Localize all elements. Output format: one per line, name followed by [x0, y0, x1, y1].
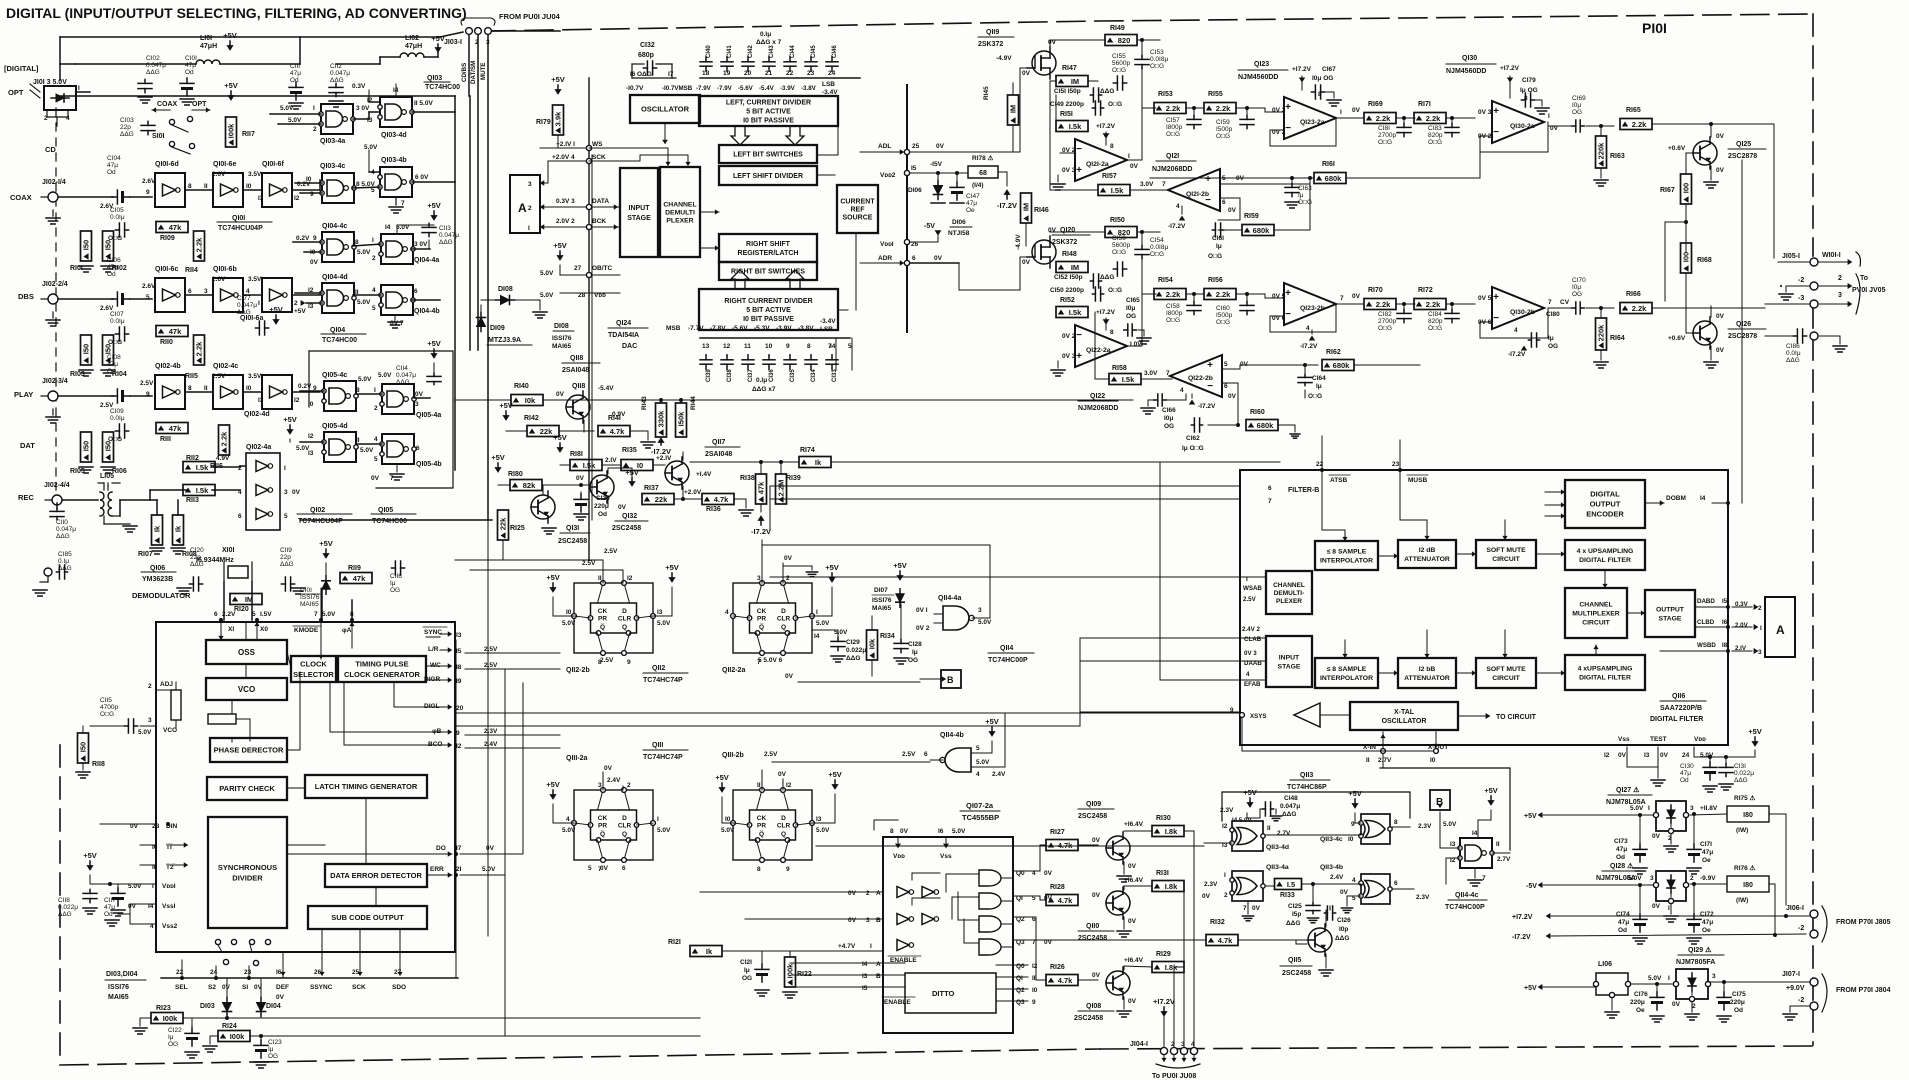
svg-text:QI23-2a: QI23-2a	[1300, 119, 1325, 126]
svg-text:8: 8	[1524, 95, 1528, 102]
svg-text:6: 6	[1268, 485, 1272, 492]
svg-text:QI0I-6f: QI0I-6f	[262, 161, 284, 168]
svg-text:-I7.2V: -I7.2V	[1198, 403, 1216, 410]
connector J101 optical	[44, 86, 76, 110]
svg-text:RI52: RI52	[1060, 297, 1075, 304]
svg-text:MULTIPLEXER: MULTIPLEXER	[1572, 610, 1620, 617]
svg-text:5: 5	[1222, 175, 1226, 182]
svg-text:2.3V: 2.3V	[1204, 881, 1218, 888]
svg-text:2SC2458: 2SC2458	[612, 525, 641, 532]
svg-text:To: To	[1860, 275, 1868, 282]
block lower SOFT MUTE CIRCUIT	[1476, 658, 1536, 688]
svg-text:0V: 0V	[784, 555, 793, 562]
svg-text:25: 25	[912, 143, 920, 150]
svg-text:I3: I3	[308, 303, 314, 310]
svg-text:I00k: I00k	[230, 1032, 245, 1041]
svg-text:QI0I: QI0I	[232, 215, 245, 222]
svg-text:O□G: O□G	[1378, 325, 1392, 332]
svg-text:0V: 0V	[1716, 347, 1725, 354]
IC Q106 outline	[156, 622, 455, 952]
svg-text:RI63: RI63	[1610, 153, 1625, 160]
svg-text:0V: 0V	[604, 765, 613, 772]
svg-text:DI07: DI07	[874, 587, 888, 594]
svg-text:STAGE: STAGE	[1659, 615, 1682, 622]
svg-text:RI27: RI27	[1050, 829, 1065, 836]
sheet border dashed right upper	[1812, 14, 1814, 256]
svg-text:CLOCK GENERATOR: CLOCK GENERATOR	[344, 670, 421, 679]
svg-text:RI3I: RI3I	[1156, 870, 1169, 877]
power -17.2V Q122-2b	[1189, 399, 1195, 404]
svg-text:Od: Od	[1618, 927, 1627, 934]
svg-text:I0k: I0k	[868, 638, 877, 649]
svg-text:0V: 0V	[576, 475, 585, 482]
svg-text:680k: 680k	[1257, 421, 1275, 430]
svg-text:-I7.2V: -I7.2V	[997, 201, 1017, 210]
svg-text:D: D	[781, 815, 786, 822]
svg-text:−: −	[1076, 144, 1082, 155]
svg-text:TC4555BP: TC4555BP	[962, 813, 999, 822]
+5V Q112-2b left	[552, 583, 554, 590]
svg-text:TO CIRCUIT: TO CIRCUIT	[1496, 714, 1537, 721]
svg-text:2SC2878: 2SC2878	[1728, 333, 1757, 340]
xor Q113-4a boxed	[1232, 871, 1263, 901]
svg-text:IM: IM	[1022, 203, 1031, 211]
svg-text:DI03: DI03	[200, 1003, 215, 1010]
svg-text:CI60: CI60	[1216, 305, 1230, 312]
svg-text:2SAI048: 2SAI048	[705, 451, 732, 458]
svg-text:DIGITAL FILTER: DIGITAL FILTER	[1579, 674, 1631, 681]
svg-text:QI0I-6e: QI0I-6e	[213, 161, 236, 168]
wire ADL to Q119 gate	[1019, 68, 1021, 152]
svg-text:TIMING PULSE: TIMING PULSE	[355, 659, 408, 668]
svg-text:5 5.0V 6: 5 5.0V 6	[758, 657, 783, 664]
svg-text:RI59: RI59	[1244, 213, 1259, 220]
svg-text:CI56: CI56	[1112, 235, 1126, 242]
svg-text:OG: OG	[1164, 423, 1174, 430]
block INPUT STAGE	[620, 168, 658, 257]
svg-text:QI2I: QI2I	[1166, 153, 1179, 160]
svg-text:I2: I2	[456, 743, 462, 750]
buffers B line	[897, 914, 909, 925]
svg-text:I00: I00	[1682, 252, 1691, 262]
svg-text:0.Iμ: 0.Iμ	[756, 377, 767, 384]
svg-text:II: II	[1366, 757, 1370, 764]
svg-text:5.0V: 5.0V	[360, 447, 374, 454]
svg-text:DI04: DI04	[266, 1003, 281, 1010]
DAC right edge	[906, 85, 908, 332]
svg-text:RI55: RI55	[1208, 91, 1223, 98]
svg-text:I3: I3	[862, 973, 868, 980]
power -17.2V R143	[660, 440, 662, 445]
svg-text:RI44: RI44	[690, 396, 697, 410]
svg-text:-5V: -5V	[1526, 883, 1537, 890]
svg-text:QI03-4c: QI03-4c	[320, 163, 345, 170]
svg-text:DO: DO	[436, 845, 446, 852]
svg-text:3.5V: 3.5V	[248, 276, 262, 283]
svg-text:0.2V: 0.2V	[297, 181, 311, 188]
svg-text:6: 6	[912, 255, 916, 262]
svg-text:CV: CV	[1560, 299, 1570, 306]
svg-text:-5.3V: -5.3V	[754, 325, 770, 332]
svg-text:II: II	[1267, 825, 1271, 832]
regulator Q129	[1676, 969, 1708, 999]
svg-text:-3.8V: -3.8V	[798, 325, 814, 332]
svg-text:I: I	[1760, 625, 1762, 632]
svg-text:Od: Od	[1616, 854, 1625, 861]
svg-text:4: 4	[725, 609, 729, 616]
svg-text:A: A	[876, 961, 881, 968]
wire +1.4V node	[683, 461, 690, 463]
svg-text:QII3: QII3	[1300, 772, 1313, 779]
svg-text:+I.4V: +I.4V	[696, 471, 712, 478]
svg-text:0V: 0V	[1652, 833, 1661, 840]
timing generator pin wires	[426, 636, 440, 638]
svg-text:I: I	[1128, 153, 1130, 160]
svg-text:RI42: RI42	[524, 415, 539, 422]
svg-text:QI24: QI24	[616, 320, 631, 327]
svg-text:2.4V 2: 2.4V 2	[1242, 626, 1260, 633]
svg-text:2SK372: 2SK372	[1052, 239, 1077, 246]
opamp Q121-2a	[1075, 139, 1127, 181]
svg-text:4: 4	[1191, 1041, 1195, 1048]
svg-text:+5V: +5V	[546, 780, 560, 789]
svg-text:I3: I3	[1450, 841, 1456, 848]
svg-text:X-IN: X-IN	[1363, 744, 1376, 751]
+5V filter	[1754, 737, 1756, 744]
demod internal wires	[245, 622, 247, 640]
transistor Q108	[1106, 971, 1130, 995]
svg-text:+5V: +5V	[431, 34, 445, 43]
resistor R116 2.2k	[219, 425, 230, 455]
svg-text:0.047μ: 0.047μ	[439, 232, 459, 239]
svg-text:QI08: QI08	[1086, 1003, 1101, 1010]
optical arrows into J101	[30, 84, 40, 92]
svg-text:8: 8	[890, 828, 894, 835]
sheet border dashed bottom left	[60, 1049, 1100, 1065]
svg-text:22k: 22k	[540, 427, 553, 436]
svg-text:18: 18	[702, 70, 710, 77]
svg-text:3: 3	[204, 288, 208, 295]
svg-text:RI30: RI30	[1156, 815, 1171, 822]
svg-text:Iμ: Iμ	[1216, 243, 1222, 250]
svg-text:OG: OG	[1572, 109, 1582, 116]
inverter Q101-6d	[155, 173, 185, 207]
svg-text:QI02-4d: QI02-4d	[244, 411, 270, 418]
svg-text:0V: 0V	[1202, 893, 1211, 900]
resistor R144 150k	[676, 403, 687, 437]
svg-text:0V: 0V	[1352, 293, 1361, 300]
resistor R168 100	[1681, 243, 1692, 273]
svg-text:680p: 680p	[638, 52, 654, 59]
wire gates row1	[353, 118, 369, 120]
block RIGHT CURRENT DIVIDER	[699, 289, 838, 330]
resistor R146 1M	[1021, 193, 1032, 223]
svg-text:Iμ: Iμ	[168, 1034, 174, 1041]
svg-text:2: 2	[1838, 275, 1842, 282]
svg-text:2: 2	[528, 205, 532, 212]
svg-text:RII2: RII2	[186, 455, 199, 462]
svg-text:ΔΔG: ΔΔG	[280, 561, 294, 568]
svg-text:D: D	[622, 815, 627, 822]
svg-text:LSB: LSB	[820, 326, 833, 333]
svg-text:I50: I50	[82, 441, 91, 451]
svg-text:CII4: CII4	[396, 365, 408, 372]
svg-text:RI46: RI46	[1034, 207, 1049, 214]
svg-text:To PU0I JU08: To PU0I JU08	[1152, 1073, 1196, 1080]
inverter Q101-6e	[213, 173, 243, 207]
svg-text:I00k: I00k	[163, 1014, 178, 1023]
svg-text:I3: I3	[456, 632, 462, 639]
svg-text:[DIGITAL]: [DIGITAL]	[4, 64, 39, 73]
svg-text:II: II	[356, 437, 360, 444]
svg-text:O□G: O□G	[1216, 319, 1230, 326]
svg-text:I: I	[816, 609, 818, 616]
fat arrows right divider	[731, 270, 749, 289]
svg-text:0V: 0V	[1092, 837, 1101, 844]
svg-text:OΔG: OΔG	[637, 71, 652, 78]
svg-text:RI76 ⚠: RI76 ⚠	[1734, 864, 1757, 872]
svg-text:PLEXER: PLEXER	[666, 217, 693, 224]
svg-text:WSAB: WSAB	[1243, 585, 1262, 592]
svg-text:680k: 680k	[1333, 361, 1351, 370]
svg-text:ΔΔG: ΔΔG	[56, 533, 70, 540]
nand Q104-4c	[322, 232, 354, 262]
svg-text:0.047μ: 0.047μ	[330, 70, 350, 77]
svg-text:0V: 0V	[848, 890, 857, 897]
flipflop Q112-2a cluster	[733, 583, 812, 653]
svg-text:-I7.2V: -I7.2V	[1512, 934, 1531, 941]
svg-text:5: 5	[848, 343, 852, 350]
svg-text:DI08: DI08	[498, 286, 513, 293]
svg-text:0.0Iμ: 0.0Iμ	[1786, 350, 1801, 357]
svg-text:+5V: +5V	[893, 561, 907, 570]
svg-text:RI67: RI67	[1660, 187, 1675, 194]
svg-text:2.2k: 2.2k	[195, 237, 204, 252]
svg-text:OUTPUT: OUTPUT	[1656, 606, 1685, 613]
svg-text:RI48: RI48	[1062, 251, 1077, 258]
svg-text:QI04-4d: QI04-4d	[322, 274, 348, 281]
svg-text:+5V: +5V	[319, 539, 333, 548]
svg-text:I2 bB: I2 bB	[1419, 666, 1436, 673]
resistor R134 10k	[867, 630, 878, 660]
svg-text:2.5V: 2.5V	[604, 548, 618, 555]
svg-text:CI05: CI05	[110, 207, 124, 214]
svg-text:3: 3	[978, 607, 982, 614]
svg-text:MUTE: MUTE	[480, 62, 487, 80]
svg-text:PLAY: PLAY	[14, 390, 33, 399]
svg-text:-5.6V: -5.6V	[732, 325, 748, 332]
svg-text:STAGE: STAGE	[627, 215, 651, 222]
svg-text:COAX: COAX	[157, 101, 178, 108]
svg-text:0V: 0V	[1716, 167, 1725, 174]
nand Q103-4d	[380, 97, 412, 127]
svg-text:0.022μ: 0.022μ	[58, 904, 78, 911]
svg-text:SAA7220P/B: SAA7220P/B	[1660, 705, 1702, 712]
svg-text:47k: 47k	[353, 574, 366, 583]
svg-text:QI03-4b: QI03-4b	[381, 157, 407, 164]
svg-text:RI72: RI72	[1418, 287, 1433, 294]
svg-text:CHANNEL: CHANNEL	[663, 201, 696, 208]
A box	[510, 175, 540, 233]
wires opamp Q121-2a	[1060, 152, 1075, 154]
svg-text:0V: 0V	[600, 865, 609, 872]
svg-text:CI49 2200p: CI49 2200p	[1050, 101, 1084, 108]
svg-text:CI74: CI74	[1616, 911, 1630, 918]
svg-text:RIII: RIII	[160, 436, 171, 443]
svg-text:QI32: QI32	[622, 513, 637, 520]
svg-text:RI06: RI06	[112, 468, 127, 475]
svg-text:I3: I3	[816, 816, 822, 823]
svg-text:CI26: CI26	[1337, 917, 1351, 924]
svg-text:3.0V: 3.0V	[1144, 370, 1158, 377]
transistor Q115	[1308, 928, 1332, 952]
svg-text:CD/BS: CD/BS	[461, 63, 468, 82]
svg-text:5.0V: 5.0V	[1648, 975, 1662, 982]
svg-text:RI49: RI49	[1110, 25, 1125, 32]
svg-text:10: 10	[765, 343, 773, 350]
svg-text:6: 6	[416, 445, 420, 452]
svg-text:OG: OG	[1572, 291, 1582, 298]
svg-text:OG: OG	[168, 1041, 178, 1048]
nand Q105-4c	[324, 381, 356, 411]
block PHASE DETECTOR	[210, 738, 287, 762]
svg-text:CURRENT: CURRENT	[840, 198, 875, 205]
resistor R118 150	[78, 733, 89, 763]
svg-text:SDO: SDO	[392, 984, 406, 991]
svg-text:VCO: VCO	[163, 727, 177, 734]
resistor R125 22k	[498, 510, 509, 540]
svg-text:TC74HC86P: TC74HC86P	[1287, 784, 1327, 791]
svg-text:Od: Od	[290, 77, 299, 84]
svg-text:TC74HC00: TC74HC00	[425, 84, 460, 91]
svg-text:Oe: Oe	[1702, 857, 1711, 864]
svg-text:I500p: I500p	[1216, 312, 1233, 319]
svg-text:2: 2	[786, 575, 790, 582]
svg-text:6: 6	[214, 611, 218, 618]
svg-text:Q̅: Q̅	[600, 830, 605, 838]
inverter Q101-6c	[155, 278, 185, 312]
svg-text:JI02-I/4: JI02-I/4	[42, 179, 66, 186]
svg-text:2.2M: 2.2M	[777, 480, 786, 497]
svg-text:CI40: CI40	[706, 45, 712, 58]
svg-text:QI09: QI09	[1086, 801, 1101, 808]
block LEFT BIT SWITCHES	[719, 145, 817, 163]
svg-text:+: +	[1285, 102, 1291, 113]
svg-text:QII6: QII6	[1672, 693, 1685, 700]
svg-text:QII8: QII8	[572, 383, 585, 390]
svg-text:JI02-3/4: JI02-3/4	[42, 378, 68, 385]
svg-text:2.2k: 2.2k	[1166, 290, 1181, 299]
svg-text:QI0I-6c: QI0I-6c	[155, 266, 178, 273]
svg-text:QI30-2b: QI30-2b	[1510, 309, 1535, 316]
svg-text:+I7.2V: +I7.2V	[1096, 123, 1116, 130]
svg-text:ISSI76: ISSI76	[872, 597, 892, 604]
svg-text:-5.4V: -5.4V	[598, 385, 614, 392]
svg-text:I50: I50	[104, 344, 113, 354]
svg-text:13: 13	[702, 343, 710, 350]
svg-text:2.2k: 2.2k	[195, 341, 204, 356]
svg-text:CI67: CI67	[1322, 66, 1336, 73]
svg-text:DIGITAL: DIGITAL	[1590, 490, 1620, 499]
svg-text:XI0I: XI0I	[222, 547, 235, 554]
svg-text:+5V: +5V	[551, 75, 565, 84]
svg-text:SCK: SCK	[352, 984, 366, 991]
wire +5V rail to L102	[299, 37, 301, 64]
svg-text:QI05: QI05	[378, 507, 393, 514]
svg-text:5 BIT ACTIVE: 5 BIT ACTIVE	[746, 108, 791, 115]
+17.2V J104	[1163, 1007, 1165, 1014]
svg-text:RI33: RI33	[1280, 892, 1295, 899]
svg-text:O□G: O□G	[1112, 249, 1126, 256]
resistor R113 1.5k	[183, 485, 215, 496]
resistor R106 150	[103, 432, 114, 462]
svg-text:OPT: OPT	[192, 101, 207, 108]
svg-text:RI09: RI09	[160, 235, 175, 242]
svg-text:4: 4	[66, 115, 70, 122]
svg-text:I2: I2	[1604, 752, 1610, 759]
svg-text:I.5: I.5	[1287, 880, 1295, 889]
svg-text:0.047μ: 0.047μ	[396, 372, 416, 379]
svg-text:I0: I0	[246, 183, 252, 190]
svg-text:0V: 0V	[292, 489, 301, 496]
svg-text:QII3-4b: QII3-4b	[1320, 864, 1343, 871]
svg-text:A: A	[876, 890, 881, 897]
svg-text:I2: I2	[294, 195, 300, 202]
svg-text:CI69: CI69	[1572, 95, 1586, 102]
svg-text:0V: 0V	[1092, 972, 1101, 979]
svg-text:RII9: RII9	[348, 565, 361, 572]
svg-text:QI0I-6d: QI0I-6d	[155, 161, 179, 168]
resistor R139 2.2M	[776, 474, 787, 504]
svg-text:5.0V: 5.0V	[288, 117, 302, 124]
svg-text:II 5.0V: II 5.0V	[414, 100, 433, 107]
svg-text:RI4I: RI4I	[608, 415, 621, 422]
svg-text:I: I	[1340, 109, 1342, 116]
svg-text:4.7k: 4.7k	[1218, 936, 1233, 945]
svg-text:OB/TC: OB/TC	[592, 265, 613, 272]
svg-text:RI25: RI25	[510, 525, 525, 532]
svg-text:LSB: LSB	[822, 81, 835, 88]
svg-text:2: 2	[313, 126, 317, 133]
svg-text:6: 6	[924, 751, 928, 758]
resistor R163 220k	[1596, 136, 1607, 168]
+5V Q113-4c	[1354, 799, 1356, 806]
svg-text:23: 23	[807, 70, 815, 77]
svg-text:CI66: CI66	[1162, 407, 1176, 414]
svg-text:LI05: LI05	[100, 473, 114, 480]
svg-text:Iμ: Iμ	[1548, 335, 1554, 342]
svg-text:2SAI048: 2SAI048	[562, 367, 589, 374]
svg-text:I: I	[1224, 872, 1226, 879]
svg-text:2.4V: 2.4V	[992, 771, 1006, 778]
svg-text:O□G: O□G	[100, 711, 114, 718]
svg-text:FROM P70I J805: FROM P70I J805	[1836, 919, 1891, 926]
svg-text:I5: I5	[1722, 598, 1728, 605]
svg-text:47μ: 47μ	[1618, 919, 1629, 926]
svg-text:CI52 I50p: CI52 I50p	[1054, 274, 1083, 281]
power -17.2V R138	[760, 518, 762, 525]
svg-text:Od: Od	[107, 271, 116, 278]
flipflop Q111-2b cluster	[733, 790, 812, 860]
svg-text:QI03: QI03	[427, 75, 442, 82]
power -17.2V Q123-2b	[1309, 335, 1315, 340]
svg-text:3: 3	[1181, 1041, 1185, 1048]
svg-text:47μ: 47μ	[1702, 919, 1713, 926]
svg-text:RI75 ⚠: RI75 ⚠	[1734, 794, 1757, 802]
svg-text:QI25: QI25	[1736, 141, 1751, 148]
svg-text:2.5V: 2.5V	[582, 560, 596, 567]
svg-text:ENABLE: ENABLE	[884, 999, 911, 1006]
